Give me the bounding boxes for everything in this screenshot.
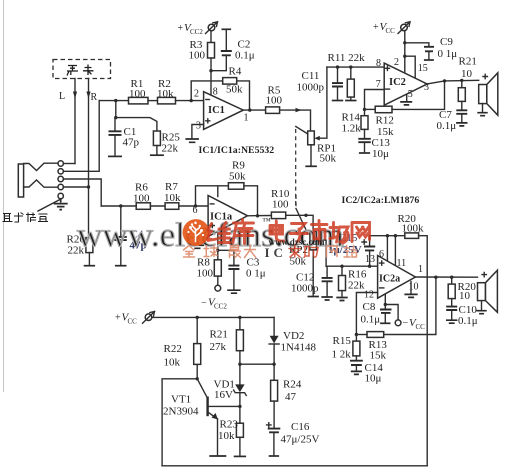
capacitor C14 xyxy=(350,361,363,365)
watermark row2 char 购 xyxy=(304,247,318,258)
ground C4 xyxy=(115,265,127,267)
node before R1 xyxy=(114,99,117,102)
resistor R20 100k xyxy=(405,233,419,239)
wire R8 bottom xyxy=(217,276,219,285)
wire C8 bottom xyxy=(384,313,386,322)
svg-text:CC: CC xyxy=(416,323,426,331)
terminal -Vcc xyxy=(395,320,401,326)
svg-text:−: − xyxy=(403,318,409,329)
node C1 tap xyxy=(114,116,117,119)
capacitor C15 plus xyxy=(362,240,366,244)
wire pin8 xyxy=(210,71,212,96)
svg-text:50k: 50k xyxy=(229,171,246,183)
ground R25 xyxy=(150,154,164,156)
wire IC2 output xyxy=(427,80,479,84)
svg-text:100: 100 xyxy=(133,193,150,205)
wire R11 bottom xyxy=(350,97,352,99)
wire pin Vee stub xyxy=(384,295,386,305)
resistor R12 xyxy=(375,106,392,113)
ground R23 xyxy=(234,455,246,457)
svg-text:1: 1 xyxy=(418,264,423,275)
watermark row2 char 站 xyxy=(344,246,357,258)
watermark char 场 xyxy=(330,223,348,244)
svg-text:IC2: IC2 xyxy=(389,77,406,88)
svg-text:100: 100 xyxy=(129,88,146,100)
plus sign pin5 xyxy=(210,224,214,228)
jack terminal circle 5 xyxy=(58,193,63,198)
svg-text:I: I xyxy=(265,245,270,260)
capacitor C2 xyxy=(221,51,232,55)
node R16 xyxy=(340,265,343,268)
wire VD1 bottom xyxy=(239,393,241,407)
wire VD2 bottom xyxy=(273,344,275,380)
stub IC1a top xyxy=(217,186,219,197)
resistor R24 xyxy=(271,380,278,401)
wire to -Vcc terminal xyxy=(385,305,398,320)
resistor R11 xyxy=(347,79,354,97)
capacitor C11 xyxy=(332,83,343,86)
wire pin3 xyxy=(192,125,204,138)
node pin15 tap xyxy=(403,55,406,58)
headphone jack sleeve xyxy=(18,164,23,197)
wire RP1 wiper xyxy=(320,67,327,138)
svg-text:VD2: VD2 xyxy=(283,330,304,342)
transistor VT1 emitter xyxy=(208,412,218,419)
speaker 2 horn xyxy=(486,270,498,312)
svg-text:1000p: 1000p xyxy=(297,82,325,94)
svg-text:R11 22k: R11 22k xyxy=(328,52,366,64)
ground C13 xyxy=(359,152,370,154)
wire R20 right long vertical xyxy=(419,236,428,466)
svg-text:22k: 22k xyxy=(348,280,365,292)
speaker 2 body xyxy=(478,283,486,301)
svg-text:R12: R12 xyxy=(376,115,394,127)
svg-text:15: 15 xyxy=(418,63,428,74)
svg-text:0.1μ: 0.1μ xyxy=(235,50,255,62)
svg-text:+: + xyxy=(373,22,379,33)
ground RP2 xyxy=(308,296,319,298)
svg-text:2: 2 xyxy=(394,57,399,68)
svg-text:C9: C9 xyxy=(440,36,453,48)
wire C3 top xyxy=(218,250,234,265)
wire R21 top xyxy=(461,80,463,87)
wire C12 bottom xyxy=(326,281,328,295)
wire to R1 xyxy=(99,100,128,102)
svg-text:TM: TM xyxy=(263,219,271,224)
node feedback xyxy=(443,79,446,82)
ground R16 xyxy=(336,298,347,301)
svg-text:10μ: 10μ xyxy=(372,148,389,160)
plus sign pin13 xyxy=(380,261,384,265)
wire C8 top xyxy=(384,305,386,310)
svg-text:10k: 10k xyxy=(157,88,174,100)
wire row2 xyxy=(63,101,99,172)
wire pin10 stub xyxy=(410,282,412,294)
node R20 tap xyxy=(450,276,453,279)
svg-text:10k: 10k xyxy=(164,192,181,204)
svg-text:47p: 47p xyxy=(123,137,140,149)
wire R2 to IC1 pin2 xyxy=(176,100,204,102)
capacitor C16 plus xyxy=(267,423,271,427)
transistor VT1 base bar xyxy=(206,397,208,417)
wire Vcc pin2 xyxy=(404,31,406,74)
svg-text:C8: C8 xyxy=(363,301,376,313)
wire C14 bottom xyxy=(355,365,357,370)
ground speaker 1 xyxy=(477,113,487,116)
wire C10 bottom xyxy=(451,310,453,319)
wire pin11 stub xyxy=(394,236,396,266)
resistor R26 xyxy=(86,238,93,253)
svg-text:47: 47 xyxy=(285,391,297,403)
wire R14 bottom xyxy=(364,129,366,138)
wire R13 left xyxy=(356,334,367,336)
minus sign pin6 xyxy=(210,203,214,205)
resistor R21 27k xyxy=(236,330,243,351)
resistor R2 xyxy=(158,97,176,104)
node RP2 top xyxy=(304,214,307,217)
wire row4 to R line xyxy=(63,186,88,188)
wire C4 bottom xyxy=(120,240,122,264)
potentiometer RP2 xyxy=(310,232,317,250)
wire node row xyxy=(240,363,274,365)
wire speaker 1 gnd lead xyxy=(482,104,484,112)
svg-text:R: R xyxy=(91,92,98,103)
svg-text:CC2: CC2 xyxy=(214,303,227,311)
watermark row2 char 最 xyxy=(229,246,241,258)
ground C8 xyxy=(380,322,390,324)
power arrow Vcc2 xyxy=(206,22,218,34)
wire C7 bottom xyxy=(461,114,463,122)
minus sign pin7 xyxy=(385,88,389,90)
jack contact wedge xyxy=(24,180,59,187)
ground C14 xyxy=(351,371,362,374)
wire R22 bottom xyxy=(196,364,198,378)
scan border artifact left xyxy=(3,0,5,392)
svg-text:−: − xyxy=(201,298,207,309)
node C8 xyxy=(384,303,387,306)
plus sign pin3 xyxy=(206,119,210,123)
wire L from sound card xyxy=(74,79,76,164)
gang dashed line xyxy=(295,129,297,208)
diode VD2 bar xyxy=(269,343,279,345)
svg-text:VT1: VT1 xyxy=(171,394,191,406)
svg-text:10: 10 xyxy=(459,290,471,302)
RP2 wiper arrow xyxy=(317,238,322,243)
wire RP1 bottom xyxy=(310,145,312,165)
svg-text:IC2/IC2a:LM1876: IC2/IC2a:LM1876 xyxy=(342,195,420,206)
wire top input bus xyxy=(327,66,384,68)
svg-text:47μ/25V: 47μ/25V xyxy=(281,434,320,446)
svg-text:R21: R21 xyxy=(210,329,228,341)
svg-text:8: 8 xyxy=(376,58,381,69)
wire C1 top xyxy=(114,118,116,132)
wire R21 27k top xyxy=(239,317,241,329)
wire to C9 xyxy=(405,43,429,47)
wire R15 top xyxy=(355,335,357,342)
wire R25 bottom xyxy=(156,146,158,154)
wire R8 top xyxy=(217,250,219,259)
arrow R xyxy=(86,92,90,99)
ground C16 xyxy=(269,455,279,457)
node C15 xyxy=(368,265,371,268)
transistor VT1 collector xyxy=(197,379,207,398)
svg-text:R22: R22 xyxy=(164,343,182,355)
node R21 27k xyxy=(238,316,241,319)
svg-text:R24: R24 xyxy=(283,379,302,391)
wire R20 to C10 xyxy=(451,299,453,307)
svg-text:15k: 15k xyxy=(370,350,387,362)
wire collector loop xyxy=(162,379,197,466)
node base/R23 xyxy=(238,405,241,408)
label 声 (sound) pseudoglyph xyxy=(67,66,78,76)
ground pin10 xyxy=(404,294,417,297)
wire to R12 xyxy=(365,108,376,110)
wire R16 bottom xyxy=(341,291,343,297)
wire R15 bottom xyxy=(355,356,357,361)
ground C11 xyxy=(332,100,343,102)
wire R12 to output xyxy=(392,81,445,110)
watermark logo dots xyxy=(187,222,204,237)
svg-text:10k: 10k xyxy=(218,430,235,442)
resistor R6 xyxy=(136,203,150,210)
watermark logo circle xyxy=(183,219,210,246)
watermark row2 char 全 xyxy=(184,246,195,258)
wire R5 to RP1 xyxy=(280,110,311,131)
wire R26 lead xyxy=(88,187,90,238)
ground jack xyxy=(54,199,68,210)
jack contact V xyxy=(24,163,59,170)
node R3/C2 xyxy=(209,69,212,72)
ground C9 xyxy=(424,59,434,61)
wire R3 bottom xyxy=(210,58,212,71)
capacitor C7 xyxy=(456,110,467,114)
watermark row2 char 采 xyxy=(289,245,301,257)
wire C15 bottom xyxy=(369,250,371,266)
svg-text:L: L xyxy=(59,91,65,102)
svg-text:R21: R21 xyxy=(459,56,477,68)
watermark logo sprout xyxy=(191,226,201,242)
wire R10 to RP2 xyxy=(286,215,313,231)
wire row3 xyxy=(63,179,101,206)
wire C3 bottom xyxy=(233,269,235,289)
wire C11 bottom xyxy=(337,87,339,100)
svg-text:+: + xyxy=(178,23,184,34)
wire C13 bottom xyxy=(364,142,366,152)
wire bottom rail xyxy=(162,465,427,467)
svg-text:IC2a: IC2a xyxy=(379,274,400,285)
wire input bus IC2a xyxy=(326,265,378,267)
potentiometer RP1 xyxy=(308,131,315,145)
op-amp IC2a xyxy=(378,256,416,299)
ground C12 xyxy=(321,297,332,300)
wire Vcc2 to R3 xyxy=(210,31,212,43)
wire pin5 to ground xyxy=(197,229,208,244)
resistor R22 xyxy=(194,344,201,365)
minus sign pin2 xyxy=(206,99,210,101)
power arrow Vcc bottom xyxy=(143,312,155,324)
node R21 xyxy=(460,79,463,82)
watermark row2 char 球 xyxy=(204,245,218,257)
svg-text:10μ: 10μ xyxy=(365,373,382,385)
resistor R1 xyxy=(129,97,149,104)
ground R11 xyxy=(345,100,356,102)
jack pointer line xyxy=(38,200,60,212)
svg-text:1000p: 1000p xyxy=(291,283,319,295)
capacitor C16 xyxy=(268,429,281,433)
speaker 1 body xyxy=(479,85,487,104)
wire pin4 Vee stub xyxy=(217,231,219,250)
resistor R4 xyxy=(223,78,237,85)
wire row1 to L line xyxy=(63,163,75,165)
sound card dashed box xyxy=(53,60,111,79)
speaker 1 horn xyxy=(487,73,498,115)
wire R9 to output xyxy=(244,186,258,216)
svg-text:IC1: IC1 xyxy=(208,105,225,116)
wire to R25 xyxy=(116,118,157,131)
wire pin6 stub xyxy=(386,236,388,261)
wire C2 top xyxy=(225,29,227,51)
wire RP2 wiper xyxy=(322,240,327,266)
capacitor C15 xyxy=(364,247,375,251)
wire R1-R2 xyxy=(148,100,158,102)
svg-text:50k: 50k xyxy=(226,84,243,96)
node collector xyxy=(196,377,199,380)
capacitor C3 xyxy=(228,266,239,269)
node output/R4 xyxy=(248,108,251,111)
capacitor C1 xyxy=(109,131,122,135)
svg-text:27k: 27k xyxy=(210,341,227,353)
node pin2/R4 xyxy=(190,99,193,102)
resistor R15 xyxy=(353,341,360,356)
signal arrow xyxy=(296,108,302,112)
watermark char 子 xyxy=(290,224,308,243)
resistor R21 xyxy=(458,88,465,102)
svg-text:100: 100 xyxy=(189,50,206,62)
ground C1 xyxy=(108,155,122,157)
resistor R8 xyxy=(214,260,221,276)
wire VT1 emitter down xyxy=(217,419,219,455)
wire VD1 top lead xyxy=(239,364,241,384)
capacitor C10 xyxy=(446,307,457,310)
svg-text:0.1μ: 0.1μ xyxy=(458,315,478,327)
svg-text:IC1/IC1a:NE5532: IC1/IC1a:NE5532 xyxy=(199,145,275,156)
ground RP1 xyxy=(305,165,317,167)
RP2 gang dashes xyxy=(295,195,297,208)
node pin12/R15 xyxy=(355,333,358,336)
wire R7 to pin6 xyxy=(179,205,208,207)
wire R24 bottom xyxy=(273,401,275,429)
capacitor C13 xyxy=(358,139,371,142)
wire R4 feedback xyxy=(191,81,223,101)
node R8/C3 xyxy=(216,249,219,252)
terminal -Vcc2 xyxy=(215,285,221,291)
label 耳机插座 (headphone jack) pseudoglyphs xyxy=(3,213,49,223)
speaker 1 plus xyxy=(483,74,487,78)
wire C1 bottom xyxy=(114,135,116,155)
node R-line row4 xyxy=(87,185,90,188)
svg-text:0.1μ: 0.1μ xyxy=(437,120,457,132)
resistor R5 xyxy=(266,107,280,114)
resistor R13 xyxy=(367,332,384,338)
svg-text:CC2: CC2 xyxy=(190,28,203,36)
node C11 xyxy=(336,65,339,68)
svg-text:+: + xyxy=(115,313,121,324)
svg-text:10k: 10k xyxy=(164,357,181,369)
jack terminal circle 1 xyxy=(58,161,63,166)
svg-text:R23: R23 xyxy=(220,419,239,431)
wire pin15 xyxy=(405,56,415,79)
svg-text:2N3904: 2N3904 xyxy=(163,406,199,418)
svg-text:C16: C16 xyxy=(291,421,310,433)
svg-text:100: 100 xyxy=(272,199,289,211)
speaker 2 plus xyxy=(482,272,486,276)
svg-text:22k: 22k xyxy=(162,143,179,155)
wire R23 bottom xyxy=(239,437,241,455)
svg-text:C: C xyxy=(274,245,283,260)
wire IC1a output xyxy=(248,215,272,217)
wire pin12 xyxy=(356,293,377,335)
resistor R25 xyxy=(153,131,160,146)
watermark char 市 xyxy=(312,221,328,243)
svg-text:100k: 100k xyxy=(402,223,425,235)
wire R from sound card xyxy=(88,79,90,188)
node pin6 stub xyxy=(386,234,389,237)
svg-text:1: 1 xyxy=(244,113,249,124)
watermark char 库 xyxy=(233,220,254,244)
capacitor C8 xyxy=(380,310,392,313)
watermark char 网 xyxy=(352,223,370,242)
ground pin3 xyxy=(185,139,199,142)
wire C4 lead xyxy=(120,206,122,237)
watermark row2 char 大 xyxy=(245,245,256,258)
wire VD2 top lead xyxy=(273,317,275,335)
diode VD2 xyxy=(270,336,279,344)
wire RP2 bottom xyxy=(312,250,314,295)
svg-text:1.2k: 1.2k xyxy=(342,123,362,135)
node VD1 top xyxy=(238,363,241,366)
power arrow Vcc xyxy=(398,22,410,34)
svg-text:3: 3 xyxy=(196,121,201,132)
wire C15 top xyxy=(369,236,371,247)
wire bus A xyxy=(370,235,405,237)
svg-text:0 1μ: 0 1μ xyxy=(246,267,266,279)
resistor R23 xyxy=(236,423,243,437)
wire R16 top xyxy=(341,266,343,275)
ground speaker 2 xyxy=(476,311,486,314)
svg-text:6: 6 xyxy=(193,205,198,216)
wire feedback 2 xyxy=(384,277,436,334)
svg-text:8: 8 xyxy=(213,87,218,98)
wire C11 top xyxy=(337,67,339,83)
svg-text:1N4148: 1N4148 xyxy=(281,342,317,354)
svg-text:10: 10 xyxy=(409,282,419,293)
svg-text:13: 13 xyxy=(365,254,375,265)
wire R4 to output xyxy=(237,81,250,110)
arrow L xyxy=(73,92,77,99)
svg-text:CC: CC xyxy=(386,27,396,35)
jack terminal circle 3 xyxy=(58,176,63,181)
ground C7 xyxy=(456,123,467,126)
wire R21 bottom xyxy=(239,351,241,365)
zener VD1 bar xyxy=(234,390,247,395)
ground C10 xyxy=(446,320,457,323)
wire R26 bottom xyxy=(88,253,90,265)
wire R9 feedback xyxy=(196,186,229,206)
watermark row2 char 网 xyxy=(327,246,338,257)
wire C12 top xyxy=(326,266,328,278)
node output/R9 xyxy=(256,214,259,217)
wire R23 top xyxy=(239,406,241,423)
